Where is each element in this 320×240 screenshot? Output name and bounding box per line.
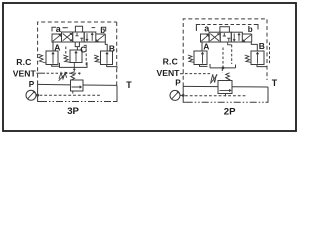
svg-text:A: A bbox=[54, 42, 60, 52]
svg-text:P: P bbox=[29, 80, 35, 89]
svg-text:B: B bbox=[259, 41, 265, 51]
svg-text:P: P bbox=[175, 78, 181, 87]
svg-text:B: B bbox=[109, 43, 115, 53]
svg-text:R.C: R.C bbox=[163, 57, 178, 67]
svg-text:C: C bbox=[80, 44, 86, 54]
svg-text:VENT: VENT bbox=[157, 68, 181, 78]
svg-text:2P: 2P bbox=[224, 107, 236, 118]
svg-text:3P: 3P bbox=[67, 106, 79, 117]
svg-text:b: b bbox=[100, 26, 105, 35]
svg-text:b: b bbox=[248, 25, 253, 34]
svg-text:VENT: VENT bbox=[13, 68, 37, 78]
svg-text:R.C: R.C bbox=[16, 57, 31, 67]
svg-text:T: T bbox=[126, 80, 132, 90]
svg-text:A: A bbox=[203, 41, 209, 51]
svg-text:T: T bbox=[272, 78, 278, 88]
